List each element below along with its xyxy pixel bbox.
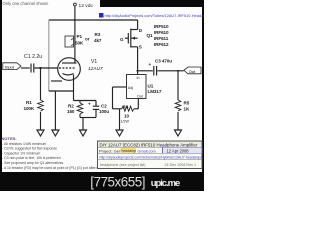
svg-text:or: or [85,37,90,42]
svg-text:100K: 100K [24,106,35,111]
svg-text:1K: 1K [184,107,190,112]
svg-text:R3: R3 [95,32,101,37]
svg-text:Input: Input [5,64,15,69]
svg-text:Gmail.com: Gmail.com [138,149,156,153]
svg-text:LM317: LM317 [148,89,162,94]
svg-text:http://diyAudioProjects.com/Tu: http://diyAudioProjects.com/Tubes/12AU7-… [105,13,205,18]
svg-text:P1: P1 [77,34,83,39]
svg-text:R2: R2 [68,104,74,109]
svg-text:In: In [137,76,140,80]
svg-text:headphone (see project list): headphone (see project list) [100,163,146,167]
svg-text:- All resistors 1/4W minimum: - All resistors 1/4W minimum [2,142,46,146]
svg-text:+: + [88,102,91,107]
svg-text:- See proposed amp for Q1 alte: - See proposed amp for Q1 alternatives [2,161,64,165]
svg-text:- Capacitor 1% minimum: - Capacitor 1% minimum [2,151,40,155]
svg-text:C1 2.2u: C1 2.2u [24,54,42,60]
svg-text:- C2/V1 suggested for flat res: - C2/V1 suggested for flat response [2,147,57,151]
svg-text:R4: R4 [123,105,129,110]
svg-text:12 vdc: 12 vdc [79,3,94,9]
svg-text:C3 470u: C3 470u [155,59,172,64]
svg-text:10: 10 [124,114,129,119]
svg-text:- C3 non polar is fine, 10k is: - C3 non polar is fine, 10k is preferred [2,156,61,160]
svg-text:G: G [120,37,124,42]
svg-text:50K: 50K [75,41,84,46]
svg-text:http://diyaudioprojects.com/Sc: http://diyaudioprojects.com/Schematics/H… [100,156,202,160]
svg-text:12 Apr 2008: 12 Apr 2008 [167,148,190,153]
svg-text:1/2W: 1/2W [121,120,130,124]
svg-text:Out: Out [137,95,143,99]
svg-text:24 Dec 2008 Rev 1: 24 Dec 2008 Rev 1 [165,163,197,167]
svg-text:+: + [149,62,152,67]
svg-text:IRF612: IRF612 [154,42,169,47]
svg-text:U1: U1 [148,83,154,88]
svg-text:NOTES:: NOTES: [2,136,17,141]
svg-text:R1: R1 [26,100,32,105]
svg-text:IRF510: IRF510 [154,24,169,29]
svg-text:S: S [139,45,142,50]
svg-text:V1: V1 [91,59,97,65]
svg-text:- A 1k resistor (R3) may be us: - A 1k resistor (R3) may be used at poin… [2,166,107,170]
svg-text:IRF611: IRF611 [154,36,169,41]
svg-text:DIY 12AU7 (ECC82) IRF510 Headp: DIY 12AU7 (ECC82) IRF510 Headphone Ampli… [100,142,198,147]
svg-text:[775x655]: [775x655] [90,174,145,189]
svg-text:150: 150 [67,109,75,114]
svg-text:4k7: 4k7 [94,38,102,43]
svg-text:Only one channel shown: Only one channel shown [3,1,50,6]
svg-text:Q1: Q1 [147,33,153,38]
svg-text:Adj: Adj [128,86,133,90]
svg-text:R5: R5 [184,101,190,106]
svg-text:Out: Out [189,69,196,74]
svg-text:headamp: headamp [122,149,137,153]
svg-text:upic.me: upic.me [151,178,180,189]
svg-text:12AU7: 12AU7 [88,66,103,72]
svg-text:IRF610: IRF610 [154,30,169,35]
svg-text:100u: 100u [99,109,109,114]
svg-text:C2: C2 [101,104,107,109]
